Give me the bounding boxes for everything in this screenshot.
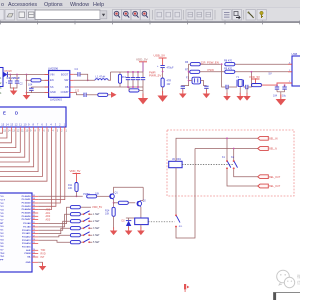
svg-text:PSEN: PSEN	[25, 253, 31, 255]
svg-text:P1.1T: P1.1T	[0, 200, 5, 202]
wire LED bus	[0, 131, 11, 142]
LED pins	[3, 127, 65, 131]
wire SW	[74, 79, 95, 81]
svg-text:38: 38	[33, 198, 35, 200]
toolbar button window1	[17, 10, 27, 21]
svg-text:VDD_5V: VDD_5V	[70, 169, 81, 173]
svg-text:P2.2A10: P2.2A10	[22, 229, 31, 232]
wire LED bus to MCU	[38, 131, 56, 206]
wire output node	[108, 72, 110, 80]
svg-text:VDD_5V: VDD_5V	[92, 205, 102, 209]
svg-text:P0.1AD1: P0.1AD1	[22, 198, 32, 201]
svg-text:10u: 10u	[282, 94, 287, 97]
wire	[162, 68, 164, 78]
svg-text:27: 27	[33, 235, 35, 237]
wire LED bus	[0, 131, 43, 176]
U1 pin names	[50, 72, 69, 94]
svg-text:10K: 10K	[105, 213, 110, 216]
capacitor C5	[127, 72, 129, 78]
relay dotted link	[182, 164, 234, 166]
svg-text:P0.4AD4: P0.4AD4	[22, 208, 32, 211]
LED pin numbers inside	[1, 122, 65, 126]
relay contact dashed box	[167, 130, 294, 196]
capacitor C8	[142, 72, 144, 78]
toolbar bottom edge	[0, 21, 300, 22]
ground	[239, 86, 241, 94]
svg-text:26: 26	[33, 239, 35, 241]
wire EN branch	[26, 75, 28, 81]
svg-text:EA: EA	[27, 256, 30, 259]
svg-text:5 SET: 5 SET	[93, 241, 100, 244]
watermark text	[297, 273, 301, 285]
svg-text:104: 104	[273, 94, 278, 97]
combobox dropdown button	[100, 11, 107, 19]
MCU pin numbers	[33, 195, 35, 258]
resistor R10	[252, 84, 262, 87]
wire LED bus	[0, 131, 38, 171]
wire LED bus	[0, 131, 3, 133]
resistor R6	[190, 63, 200, 66]
wire	[9, 75, 11, 82]
svg-text:ALE: ALE	[26, 249, 31, 252]
svg-text:L1 47uH: L1 47uH	[96, 75, 106, 79]
red cursor glyph	[184, 284, 189, 292]
ground	[110, 227, 118, 235]
svg-text:GND: GND	[50, 90, 56, 94]
wire	[38, 207, 70, 223]
port BEL_OUT	[258, 184, 269, 188]
resistor R1	[31, 79, 41, 82]
capacitor C9	[84, 93, 86, 97]
toolbar zoom button 1	[113, 10, 122, 21]
resistor R11	[75, 183, 78, 192]
wire contact feed 3	[195, 148, 258, 150]
toolbar grayed button 2	[164, 10, 173, 20]
resistor R4	[98, 93, 108, 96]
wire	[86, 94, 98, 96]
svg-text:BEL_OUT: BEL_OUT	[269, 176, 280, 179]
wire	[108, 94, 111, 96]
MCU U2	[0, 193, 32, 272]
capacitor C6	[132, 72, 134, 78]
junction	[226, 137, 228, 139]
capacitor C4 bootstrap	[74, 73, 78, 75]
svg-text:P0.6AD6: P0.6AD6	[22, 215, 32, 218]
svg-text:EN: EN	[50, 78, 54, 82]
wire GND rail	[27, 92, 49, 94]
svg-text:22: 22	[33, 256, 35, 258]
watermark input box	[274, 293, 304, 300]
svg-text:BEL_N: BEL_N	[269, 148, 277, 151]
svg-text:104: 104	[28, 82, 33, 86]
capacitor C1	[8, 81, 12, 83]
connector J1	[0, 68, 3, 87]
svg-text:36: 36	[33, 205, 35, 207]
resistor R13	[118, 201, 128, 204]
junction	[26, 74, 28, 76]
svg-text:29: 29	[33, 229, 35, 231]
wire	[248, 72, 252, 87]
svg-text:1 SET: 1 SET	[93, 213, 100, 216]
svg-text:33: 33	[33, 215, 35, 217]
ground	[276, 95, 286, 106]
toolbar separator	[183, 10, 185, 20]
toolbar zoom button 3	[131, 10, 140, 21]
relay actuation dotted link	[148, 221, 174, 223]
wire Q2 collector	[142, 187, 144, 200]
svg-text:o: o	[1, 2, 4, 8]
svg-text:BEL_OUT: BEL_OUT	[269, 185, 280, 188]
junction	[26, 79, 28, 81]
MCU pin names left column	[0, 196, 5, 261]
resistor R2	[119, 72, 121, 74]
wire LED bus	[0, 131, 16, 147]
resistor R7	[190, 70, 200, 73]
wire	[41, 79, 49, 81]
toolbar grayed button 6	[204, 10, 213, 20]
capacitor C12	[205, 85, 207, 88]
wire crystal drop	[222, 64, 226, 87]
capacitor C10	[160, 66, 164, 68]
U1 pins	[45, 74, 74, 92]
wire FB rail	[74, 86, 143, 88]
svg-text:BOOT: BOOT	[61, 72, 69, 76]
sheet border line with zone ticks	[0, 21, 300, 23]
svg-text:31: 31	[33, 222, 35, 224]
junction	[233, 148, 235, 150]
wire	[38, 240, 70, 242]
junction	[221, 63, 223, 65]
svg-text:Help: Help	[93, 2, 104, 8]
wire	[74, 93, 84, 95]
svg-text:LM2596: LM2596	[48, 66, 59, 70]
toolbar grayed button 3	[173, 10, 182, 20]
capacitor C3	[30, 87, 32, 88]
wire	[10, 83, 17, 88]
wire	[80, 74, 88, 80]
junction	[113, 202, 115, 204]
svg-text:P0.5AD5: P0.5AD5	[22, 212, 32, 215]
capacitor C7	[137, 72, 139, 78]
junction	[26, 92, 28, 94]
ground	[226, 88, 228, 94]
wire LED bus	[0, 131, 29, 162]
svg-text:23: 23	[33, 252, 35, 254]
ground	[246, 88, 248, 94]
USB1 pin numbers	[289, 62, 291, 83]
ground	[179, 90, 187, 98]
svg-text:P0.7AD7: P0.7AD7	[22, 218, 32, 221]
svg-text:USB: USB	[292, 52, 298, 56]
wire	[38, 214, 70, 227]
svg-text:10K: 10K	[68, 187, 73, 190]
svg-text:微: 微	[297, 273, 300, 279]
junction	[9, 74, 11, 76]
inductor L1	[95, 79, 108, 81]
resistor RK3	[70, 220, 80, 223]
resistor R12	[87, 195, 97, 198]
transistor Q2	[137, 201, 142, 206]
svg-text:PSW_EN: PSW_EN	[207, 60, 219, 64]
svg-text:4 SET: 4 SET	[93, 234, 100, 237]
port BEL_IN	[258, 136, 269, 140]
wire SS	[31, 86, 48, 88]
wire	[16, 75, 18, 82]
toolbar combobox	[35, 10, 100, 20]
junction	[251, 71, 253, 73]
wire LED bus	[0, 131, 47, 181]
switch S5	[80, 241, 83, 243]
toolbar grayed button 4	[186, 10, 195, 20]
switch K3 contact	[175, 214, 177, 216]
svg-text:25: 25	[33, 242, 35, 244]
svg-text:P2.3A11: P2.3A11	[22, 232, 31, 235]
svg-text:BEL_IN: BEL_IN	[269, 137, 278, 140]
svg-text:VDD_5V: VDD_5V	[249, 75, 260, 79]
svg-text:GND: GND	[26, 262, 31, 264]
MCU pins right	[32, 196, 38, 262]
toolbar button window2	[27, 10, 37, 21]
port BEL_OUT	[258, 175, 269, 179]
junction	[76, 195, 78, 197]
wire LED bus to MCU	[38, 131, 65, 199]
svg-text:470uF: 470uF	[167, 67, 175, 70]
component LS1	[192, 77, 201, 84]
resistor R5	[161, 78, 164, 87]
crystal Y1	[228, 86, 237, 88]
ground	[23, 92, 31, 100]
connector J1 pin text	[0, 77, 2, 95]
junction	[87, 79, 89, 81]
switch S4	[80, 234, 83, 236]
wire	[26, 80, 28, 92]
wire PWM	[38, 195, 82, 197]
toolbar button swap	[232, 10, 241, 21]
wire	[97, 195, 110, 197]
connector USB1	[292, 56, 302, 86]
wire	[128, 226, 130, 229]
svg-text:P2.5A13: P2.5A13	[22, 239, 31, 242]
diode D1	[3, 72, 7, 77]
svg-text:P0.3AD3: P0.3AD3	[22, 205, 32, 208]
svg-text:122: 122	[75, 90, 80, 93]
junction	[16, 74, 18, 76]
svg-text:R9 470: R9 470	[224, 67, 233, 70]
capacitor C14	[246, 85, 248, 89]
toolbar button key	[257, 10, 266, 21]
svg-text:P2.1A9: P2.1A9	[23, 226, 31, 229]
resistor RK6	[70, 241, 80, 244]
resistor R14	[113, 203, 115, 208]
svg-text:R8 470: R8 470	[224, 60, 233, 63]
toolbar separator	[243, 10, 245, 20]
svg-text:JD_0D1: JD_0D1	[172, 158, 182, 161]
wire	[227, 169, 258, 186]
svg-text:5V: 5V	[269, 71, 272, 75]
svg-text:Accessories: Accessories	[8, 2, 37, 8]
svg-text:COMP: COMP	[61, 90, 69, 94]
capacitor C2	[15, 81, 19, 83]
svg-text:E D: E D	[3, 111, 22, 116]
resistor RK5	[70, 234, 80, 237]
wire contact feed 1	[176, 138, 258, 161]
wire D+ line	[200, 71, 226, 73]
relay K1 coil	[135, 218, 149, 225]
wire	[176, 149, 195, 239]
connector LED display	[0, 107, 66, 127]
wire	[244, 86, 246, 88]
ground arrow	[111, 92, 117, 98]
svg-text:P0.0AD0: P0.0AD0	[22, 195, 32, 198]
toolbar grayed button 5	[195, 10, 204, 20]
power VDD_5V key pullup	[80, 206, 91, 208]
wire contact drop 1	[226, 138, 228, 160]
USB1 pins	[288, 64, 292, 83]
toolbar separator	[152, 10, 154, 20]
svg-text:INT: INT	[41, 256, 45, 259]
svg-text:AD3: AD3	[46, 219, 51, 222]
wire	[114, 202, 119, 204]
MCU pin names right column	[22, 195, 32, 264]
wire LED bus	[0, 131, 25, 157]
switch S2	[80, 220, 83, 222]
svg-text:3 SET: 3 SET	[93, 227, 100, 230]
wire Q1 emitter	[113, 199, 115, 202]
svg-text:PWR: PWR	[149, 71, 156, 75]
toolbar button (partial)	[0, 10, 4, 21]
svg-text:VPP: VPP	[0, 260, 4, 262]
toolbar background	[0, 8, 300, 22]
toolbar button probe	[246, 10, 255, 21]
ground	[39, 263, 47, 271]
wire top rail	[111, 71, 144, 73]
wire	[76, 192, 78, 197]
wire	[38, 235, 70, 237]
svg-text:USB_5V: USB_5V	[154, 54, 166, 58]
svg-text:P2.4A12: P2.4A12	[22, 236, 31, 239]
wire	[140, 225, 142, 229]
wire	[162, 87, 164, 94]
wire LED bus	[0, 131, 20, 152]
svg-text:SS: SS	[50, 85, 54, 89]
svg-text:32: 32	[33, 218, 35, 220]
ground	[138, 94, 148, 105]
wire left bus	[181, 64, 190, 85]
junction	[162, 71, 164, 73]
svg-text:35: 35	[33, 208, 35, 210]
svg-text:POW: POW	[5, 69, 12, 73]
menu bar background	[0, 0, 300, 8]
capacitor C15	[276, 85, 278, 87]
capacitor C11	[182, 85, 184, 88]
wire	[113, 216, 115, 228]
toolbar zoom button 4	[140, 10, 149, 21]
resistor R8	[225, 63, 235, 66]
capacitor C13	[226, 85, 228, 89]
wire VBUS	[262, 83, 293, 85]
wire	[128, 202, 135, 204]
switch S3	[80, 227, 83, 229]
LED pin numbers below	[3, 129, 67, 132]
resistor RK1	[70, 206, 80, 209]
junction	[188, 71, 190, 73]
svg-text:39: 39	[33, 195, 35, 197]
svg-text:FB: FB	[65, 85, 69, 89]
svg-text:34: 34	[33, 212, 35, 214]
wire contact feed 2	[175, 168, 177, 215]
resistor R9	[225, 70, 235, 73]
op-amp U1 buck regulator	[49, 71, 70, 98]
wire LED bus to MCU	[38, 131, 51, 209]
port BEL_N	[258, 147, 269, 151]
wire	[142, 87, 144, 94]
wire LED bus to MCU	[38, 131, 60, 203]
svg-text:24: 24	[33, 249, 35, 251]
wire right bus	[201, 81, 207, 86]
watermark circles	[277, 270, 295, 287]
wire Q1 collector rail	[114, 187, 144, 193]
ground	[137, 227, 145, 235]
svg-text:SW: SW	[64, 78, 69, 82]
svg-text:2 SET: 2 SET	[93, 220, 100, 223]
menu labels	[1, 2, 104, 8]
resistor RK2	[70, 213, 80, 216]
wire	[277, 91, 285, 93]
wire contact drop 2	[233, 149, 235, 161]
svg-text:Window: Window	[70, 2, 89, 8]
wire D- line	[200, 63, 220, 65]
ground	[125, 227, 133, 235]
toolbar button list	[222, 10, 231, 21]
svg-text:VDD_5V: VDD_5V	[136, 57, 148, 61]
toolbar zoom button 2	[122, 10, 131, 21]
svg-text:C1 220uF: C1 220uF	[7, 76, 21, 80]
svg-text:VIN: VIN	[50, 72, 54, 76]
svg-text:10K: 10K	[95, 193, 100, 196]
svg-text:P2.7A15: P2.7A15	[22, 246, 31, 249]
toolbar button open	[5, 10, 15, 21]
wire LED bus	[0, 131, 7, 138]
wire Q2 emitter	[140, 207, 142, 218]
svg-text:37: 37	[33, 202, 35, 204]
relay K2 coil	[169, 161, 182, 167]
ground	[157, 91, 167, 102]
svg-text:PSW: PSW	[208, 68, 215, 72]
svg-text:30: 30	[33, 225, 35, 227]
wire GND pin	[38, 262, 42, 265]
svg-text:P0.2AD2: P0.2AD2	[22, 202, 32, 205]
transistor Q1	[110, 194, 115, 199]
ground	[10, 87, 18, 95]
svg-text:1W: 1W	[167, 83, 171, 86]
wire	[128, 218, 130, 221]
wire VIN rail	[7, 74, 48, 76]
svg-text:C4: C4	[75, 67, 79, 71]
svg-text:Options: Options	[44, 2, 63, 8]
wire	[234, 169, 258, 176]
ground	[203, 90, 211, 98]
svg-text:信: 信	[297, 279, 300, 285]
svg-text:P2.6A14: P2.6A14	[22, 242, 31, 245]
wire	[38, 221, 70, 230]
svg-text:P2.0A8: P2.0A8	[23, 222, 31, 225]
resistor R3	[129, 89, 139, 92]
wire	[27, 79, 32, 81]
junctions on rails	[127, 71, 129, 73]
toolbar separator	[214, 10, 216, 20]
net labels AD	[46, 209, 51, 222]
svg-text:LM2596S: LM2596S	[50, 98, 62, 102]
